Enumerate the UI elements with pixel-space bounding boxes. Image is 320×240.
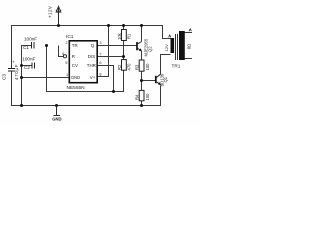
node timing top junction: [45, 44, 48, 47]
wire R1 top feed: [123, 26, 125, 30]
svg-text:8Ω: 8Ω: [187, 44, 192, 49]
node pin8 feed junction: [107, 24, 110, 27]
svg-text:C1: C1: [23, 45, 29, 50]
svg-text:CV: CV: [72, 63, 78, 68]
svg-text:1: 1: [66, 73, 68, 77]
svg-text:R2: R2: [117, 64, 122, 70]
wire pin4 reset tie: [59, 46, 64, 57]
transistor Q1 BD139: [156, 74, 161, 85]
svg-text:100: 100: [145, 93, 150, 101]
svg-text:GND: GND: [52, 116, 61, 121]
svg-text:C2: C2: [24, 65, 30, 70]
svg-text:NE555N: NE555N: [67, 85, 86, 91]
svg-text:12V: 12V: [164, 44, 169, 51]
svg-text:3: 3: [99, 41, 101, 45]
svg-text:2: 2: [65, 41, 67, 45]
wire R3 to node to R4: [141, 71, 143, 90]
svg-text:470: 470: [127, 63, 132, 71]
wire secondary top: [185, 32, 192, 34]
capacitor C2: [32, 63, 35, 69]
svg-text:Q: Q: [91, 43, 95, 48]
node +12V junction: [57, 24, 60, 27]
svg-text:V+: V+: [90, 75, 96, 80]
svg-text:10k: 10k: [117, 32, 122, 40]
wire Q1 collector to primary bottom: [161, 55, 171, 75]
svg-text:100nF: 100nF: [22, 56, 35, 61]
transformer primary sense arrow: [169, 35, 171, 37]
ground symbol: [54, 106, 61, 116]
svg-text:R1: R1: [127, 33, 132, 39]
resistor R4: [139, 90, 144, 100]
wire secondary bottom: [185, 58, 192, 60]
svg-text:Q2: Q2: [147, 46, 152, 52]
transformer TR1 secondary winding: [179, 31, 185, 60]
node R4 bottom junction: [140, 104, 143, 107]
transformer TR1 primary winding: [171, 38, 175, 53]
wire gnd bus x21: [21, 45, 23, 106]
wire pin6 threshold row: [98, 66, 114, 92]
wire Q1 base row: [142, 80, 156, 82]
wire Q2 emitter to rail: [141, 26, 143, 42]
transformer TR1 core: [176, 34, 178, 60]
svg-text:8: 8: [99, 72, 101, 76]
wire left rail upper (to C3): [11, 25, 13, 68]
svg-text:+: +: [12, 60, 15, 65]
svg-text:C3: C3: [2, 74, 7, 80]
svg-text:7: 7: [99, 52, 101, 56]
svg-text:THR: THR: [87, 63, 96, 68]
transformer secondary sense arrow: [189, 29, 191, 31]
wire C2 row pin5: [21, 65, 32, 67]
node threshold junction: [112, 90, 115, 93]
svg-text:5: 5: [65, 61, 67, 65]
wire timing node bottom row: [46, 70, 124, 91]
node pin7 R1 R2 junction: [122, 55, 125, 58]
svg-text:Q1: Q1: [163, 76, 168, 82]
svg-text:TR: TR: [72, 43, 78, 48]
svg-text:6: 6: [99, 61, 101, 65]
resistor R1: [122, 30, 127, 41]
capacitor C3 electrolytic: [8, 69, 15, 72]
wire Q2 collector to R3: [141, 51, 143, 60]
svg-text:R4: R4: [134, 94, 139, 100]
wire pin3 output row: [98, 45, 137, 47]
wire primary top feed: [163, 26, 171, 39]
node ground symbol junction: [55, 104, 58, 107]
svg-text:GND: GND: [71, 75, 80, 80]
wire left rail lower (C3 to bottom): [11, 72, 13, 107]
svg-text:R: R: [72, 54, 75, 59]
power +12V supply arrow: [56, 6, 61, 25]
wire R1 to pin7 to R2: [123, 41, 125, 60]
svg-text:DIS: DIS: [88, 54, 95, 59]
svg-text:100nF: 100nF: [24, 36, 37, 41]
resistor R2: [122, 60, 127, 71]
wire Q1 emitter to rail: [160, 86, 162, 106]
resistor R3: [139, 60, 144, 71]
capacitor C1: [32, 42, 34, 49]
wire timing node column x46: [46, 45, 48, 92]
node gnd bus bottom junction: [20, 104, 23, 107]
node pin1 gnd junction: [20, 76, 23, 79]
node C2 gnd junction: [20, 64, 23, 67]
op-amp IC1 NE555 body: [69, 41, 97, 83]
node Q1 base R3 R4 junction: [140, 79, 143, 82]
wire R4 bottom to rail: [141, 101, 143, 106]
node Q2 emitter junction: [140, 24, 143, 27]
wire C1 row pin2: [21, 45, 31, 47]
pin 4 inversion bubble: [63, 55, 66, 58]
svg-text:R3: R3: [134, 64, 139, 70]
svg-text:470µF: 470µF: [14, 64, 19, 80]
svg-text:IC1: IC1: [66, 34, 74, 40]
transistor Q2 MJE2955: [137, 42, 142, 52]
wire pin7 discharge row: [98, 56, 124, 58]
svg-text:+12V: +12V: [48, 5, 54, 18]
wire bottom ground rail: [11, 105, 161, 107]
svg-text:TR1: TR1: [172, 63, 181, 68]
wire top +12V rail: [11, 25, 163, 27]
wire pin1 gnd row: [21, 77, 69, 79]
svg-text:100: 100: [145, 63, 150, 71]
node R1 top junction: [122, 24, 125, 27]
wire pin8 V+ feed: [98, 26, 109, 77]
